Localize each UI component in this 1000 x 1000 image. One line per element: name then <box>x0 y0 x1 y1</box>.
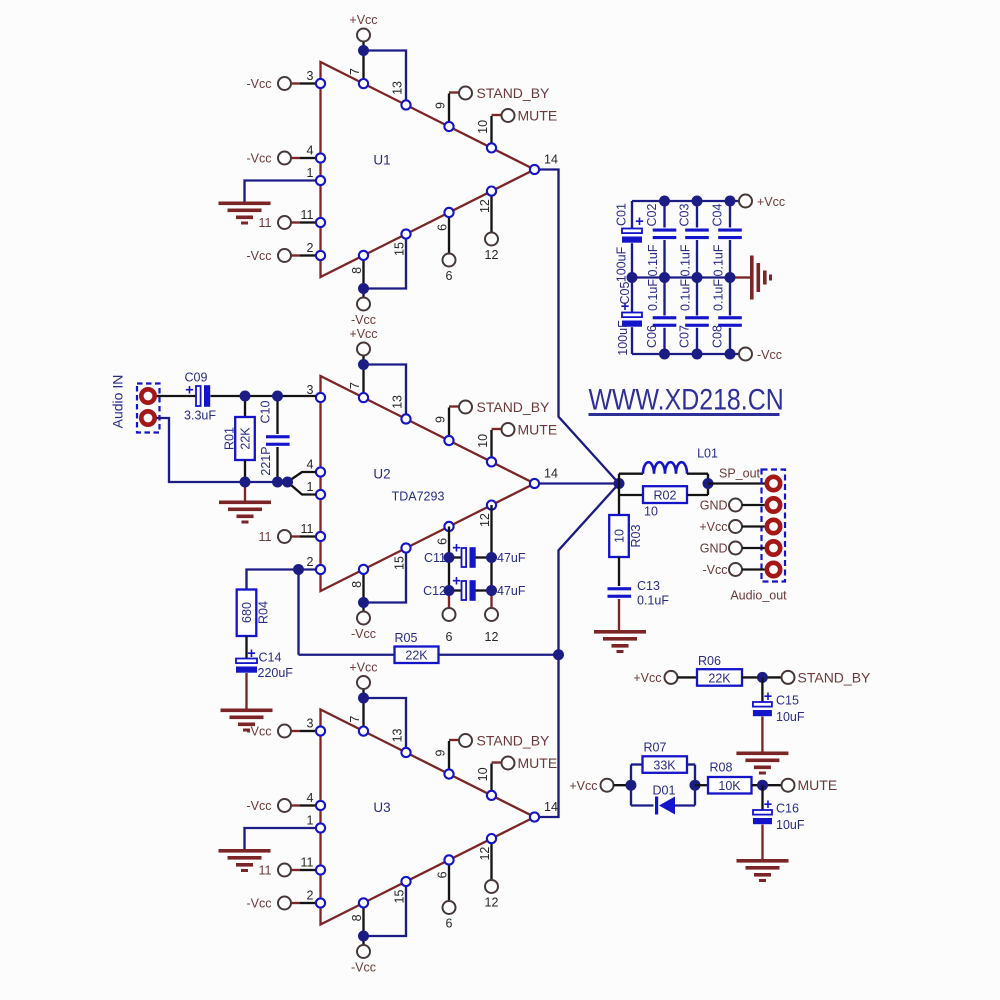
wire pin2 junction down <box>297 570 299 655</box>
pin 15 U2 <box>401 543 410 552</box>
pin 11 U1 <box>316 218 325 227</box>
wire fork to pin 1 <box>288 482 317 495</box>
wire C16 to ground <box>761 825 763 860</box>
wire R07/D01 left leg <box>630 765 632 806</box>
pin 15 U3 <box>401 877 410 886</box>
pin 12 U2 <box>487 501 496 510</box>
wire pin 2 stub b <box>300 254 316 256</box>
pin 13 U3 <box>401 748 410 757</box>
svg-text:0.1uF: 0.1uF <box>646 244 660 276</box>
svg-text:C12: C12 <box>423 584 446 598</box>
wire U1 output to node <box>535 170 620 484</box>
svg-text:U1: U1 <box>373 153 390 168</box>
junction R01 bottom <box>240 477 251 488</box>
capacitor C03 <box>685 229 709 240</box>
wire pin 4 stub b <box>300 804 316 806</box>
svg-text:L01: L01 <box>697 447 718 461</box>
svg-text:7: 7 <box>348 716 362 723</box>
wire C05 top <box>631 278 633 313</box>
pin 14 U2 <box>530 479 539 488</box>
wire to D01 <box>631 804 654 806</box>
terminal -Vcc pin4 U1 <box>278 152 291 165</box>
wire junction to -Vcc <box>362 289 364 298</box>
svg-text:22K: 22K <box>405 649 428 663</box>
wire D01 right <box>675 804 695 806</box>
wire pin 3 stub b <box>300 82 316 84</box>
junction -Vcc rail <box>659 349 670 360</box>
junction C10 bottom <box>272 477 283 488</box>
capacitor C04 <box>718 229 742 240</box>
terminal pin 6 U2 <box>443 608 456 621</box>
pin 1 U3 <box>316 823 325 832</box>
terminal pin 12 U3 <box>485 880 498 893</box>
terminal -Vcc pin4 U3 <box>278 799 291 812</box>
terminal STAND_BY U1 <box>459 87 472 100</box>
svg-text:0.1uF: 0.1uF <box>646 279 660 311</box>
wire pin 9 to STAND_BY <box>448 408 450 441</box>
wire GND to pad <box>742 547 765 549</box>
svg-text:+: + <box>247 646 255 662</box>
op-amp U2 (TDA7293) triangle <box>321 376 535 591</box>
svg-text:C07: C07 <box>677 325 691 348</box>
svg-text:C11: C11 <box>424 551 446 565</box>
svg-text:10: 10 <box>613 529 627 543</box>
capacitor C15 <box>753 702 772 716</box>
wire stub MUTE <box>492 428 502 430</box>
wire input top <box>157 395 197 397</box>
capacitor C02 <box>653 229 677 240</box>
wire U2 output to node <box>535 482 620 484</box>
wire pin 11 stub b <box>300 221 316 223</box>
svg-text:+: + <box>764 797 772 813</box>
svg-text:C02: C02 <box>645 203 659 226</box>
net +Vcc rail <box>632 200 739 202</box>
svg-text:10: 10 <box>644 505 658 519</box>
wire C14 to ground <box>245 673 247 709</box>
svg-text:3: 3 <box>307 69 314 83</box>
wire to R08 <box>695 784 708 786</box>
svg-text:6: 6 <box>446 630 453 644</box>
svg-text:R01: R01 <box>222 427 236 450</box>
svg-text:11: 11 <box>259 216 272 230</box>
wire bracket pin8-pin15 <box>364 234 407 289</box>
svg-text:+Vcc: +Vcc <box>349 661 377 675</box>
ground pin 1 <box>219 849 271 872</box>
svg-text:100uF: 100uF <box>616 320 630 356</box>
wire to input ground <box>244 482 246 501</box>
wire C10 down <box>276 447 278 482</box>
capacitor C09 <box>196 385 210 407</box>
connector Audio IN box <box>137 384 160 433</box>
wire C05 bottom <box>631 327 633 354</box>
wire -Vcc to pad <box>742 568 765 570</box>
svg-text:+: + <box>452 574 460 590</box>
wire pin 3 stub b <box>300 730 316 732</box>
terminal +Vcc bank <box>739 195 752 208</box>
pin 13 U1 <box>401 100 410 109</box>
node output <box>614 478 625 489</box>
wire pin 3 stub a <box>292 730 301 732</box>
junction C12 left <box>444 585 455 596</box>
pad GND <box>767 498 780 511</box>
svg-text:WWW.XD218.CN: WWW.XD218.CN <box>589 382 784 415</box>
wire C15 to ground <box>761 717 763 752</box>
wire pin 1 to ground <box>245 828 317 849</box>
terminal -Vcc pin3 U1 <box>278 77 291 90</box>
svg-text:+: + <box>764 689 772 705</box>
pin 12 U1 <box>487 187 496 196</box>
junction -Vcc <box>358 597 369 608</box>
wire pin 12 drop <box>490 839 492 880</box>
svg-text:10uF: 10uF <box>776 818 805 832</box>
op-amp U1 (TDA7293) triangle <box>321 62 535 277</box>
wire C01 bottom <box>631 243 633 277</box>
svg-text:+Vcc: +Vcc <box>699 520 727 534</box>
ground C16 <box>737 859 789 882</box>
resistor R03 <box>609 515 629 557</box>
svg-text:2: 2 <box>307 555 314 569</box>
svg-text:+Vcc: +Vcc <box>633 671 661 685</box>
svg-text:15: 15 <box>392 556 406 570</box>
junction -Vcc <box>358 931 369 942</box>
svg-text:7: 7 <box>348 382 362 389</box>
wire +Vcc to pad <box>742 525 765 527</box>
pad -Vcc <box>767 563 780 576</box>
junction GND rail <box>627 272 638 283</box>
wire stub STAND_BY <box>449 91 459 93</box>
wire R04 to C14 <box>245 636 247 659</box>
svg-text:6: 6 <box>435 871 449 878</box>
svg-text:+: + <box>452 541 460 557</box>
svg-text:Audio_out: Audio_out <box>730 589 787 603</box>
svg-text:0.1uF: 0.1uF <box>711 279 725 311</box>
wire C03 top <box>696 201 698 228</box>
pad Audio IN bottom <box>141 411 154 424</box>
terminal MUTE U1 <box>502 109 515 122</box>
label WWW.XD218.CN <box>589 382 784 415</box>
wire C11 right <box>476 556 492 558</box>
svg-text:U3: U3 <box>373 800 390 815</box>
svg-text:MUTE: MUTE <box>798 777 838 793</box>
diode D01 <box>655 797 675 815</box>
svg-text:22K: 22K <box>708 672 731 686</box>
wire +Vcc to junction <box>362 42 364 51</box>
capacitor C08 <box>718 316 742 327</box>
junction +Vcc <box>358 45 369 56</box>
svg-text:-Vcc: -Vcc <box>351 961 376 975</box>
wire C06 top <box>663 278 665 316</box>
junction C12 right <box>486 585 497 596</box>
wire R07/D01 right leg <box>694 765 696 806</box>
junction -Vcc rail <box>725 349 736 360</box>
net GND rail <box>632 276 735 278</box>
wire R01 to ground rail <box>244 460 246 482</box>
wire C08 top <box>729 278 731 316</box>
terminal -Vcc <box>729 563 742 576</box>
svg-text:D01: D01 <box>653 784 676 798</box>
wire pin 12 down <box>490 505 492 591</box>
ground C15 <box>736 752 788 775</box>
pin 2 U2 <box>316 565 325 574</box>
wire +Vcc to junction <box>362 356 364 365</box>
wire bracket pin8-pin15 <box>364 548 407 603</box>
svg-text:12: 12 <box>478 513 492 527</box>
wire to C10 <box>276 396 278 434</box>
svg-text:MUTE: MUTE <box>518 755 558 771</box>
wire pin 8 to junction <box>362 903 364 936</box>
pin 9 U1 <box>444 122 453 131</box>
resistor R01 <box>235 417 255 460</box>
wire C01 top <box>631 201 633 229</box>
junction R05 bus <box>553 649 564 660</box>
svg-text:9: 9 <box>433 416 447 423</box>
wire bracket pin8-pin15 <box>364 882 407 937</box>
capacitor C06 <box>653 316 677 327</box>
svg-text:-Vcc: -Vcc <box>247 152 272 166</box>
svg-text:C04: C04 <box>710 203 724 226</box>
wire to R01 <box>244 396 246 417</box>
ground cap bank <box>750 256 772 300</box>
svg-text:10uF: 10uF <box>776 710 805 724</box>
svg-text:11: 11 <box>259 530 272 544</box>
svg-text:1: 1 <box>307 480 314 494</box>
terminal MUTE U3 <box>502 757 515 770</box>
wire pin 12 drop <box>490 191 492 232</box>
inductor L01 <box>643 462 687 473</box>
terminal 11 U3 <box>278 864 291 877</box>
svg-text:GND: GND <box>700 499 728 513</box>
svg-text:8: 8 <box>350 914 364 921</box>
terminal +Vcc <box>729 520 742 533</box>
pin 3 U2 <box>316 393 325 402</box>
svg-text:11: 11 <box>301 208 314 222</box>
wire junction to pin 7 <box>362 698 364 731</box>
terminal STAND_BY net <box>782 671 795 684</box>
wire bracket pin7-pin13 <box>364 51 407 106</box>
svg-text:R06: R06 <box>698 654 721 668</box>
pin 6 U2 <box>444 522 453 531</box>
wire to R02 <box>619 494 643 496</box>
svg-text:1: 1 <box>307 814 314 828</box>
pin 1 U2 <box>316 490 325 499</box>
svg-text:3.3uF: 3.3uF <box>184 409 216 423</box>
wire +Vcc to R07 node <box>614 784 632 786</box>
svg-text:C13: C13 <box>637 579 660 593</box>
wire pin 8 to junction <box>362 569 364 602</box>
svg-text:C06: C06 <box>645 325 659 348</box>
wire R07 right <box>687 763 695 765</box>
svg-text:6: 6 <box>435 224 449 231</box>
pin 13 U2 <box>401 414 410 423</box>
wire rail to ground <box>735 276 750 278</box>
wire pin 11 stub a <box>292 869 301 871</box>
junction C11 left <box>444 552 455 563</box>
junction +Vcc rail <box>725 196 736 207</box>
junction R06/C15 <box>757 672 768 683</box>
pin 9 U3 <box>444 769 453 778</box>
wire pin 4 stub a <box>292 804 301 806</box>
svg-text:C01: C01 <box>614 203 628 226</box>
wire pin 6 drop <box>448 212 450 253</box>
svg-text:C08: C08 <box>710 325 724 348</box>
svg-text:12: 12 <box>485 896 499 910</box>
pin 4 U3 <box>316 801 325 810</box>
terminal MUTE U2 <box>502 423 515 436</box>
svg-text:47uF: 47uF <box>497 584 526 598</box>
wire pin 11 stub a <box>292 535 301 537</box>
wire +Vcc to R06 <box>678 676 698 678</box>
terminal 11 U2 <box>278 530 291 543</box>
pin 10 U2 <box>487 457 496 466</box>
svg-text:C05: C05 <box>618 281 632 304</box>
pin 7 U2 <box>359 393 368 402</box>
terminal -Vcc pin2 U1 <box>278 249 291 262</box>
wire pin2 to R04 <box>247 570 317 590</box>
wire L01 right <box>687 473 708 475</box>
pin 3 U3 <box>316 726 325 735</box>
junction +Vcc <box>358 359 369 370</box>
svg-text:3: 3 <box>307 717 314 731</box>
wire to R07 <box>631 763 643 765</box>
svg-text:47uF: 47uF <box>497 551 526 565</box>
wire C12 left <box>449 589 462 591</box>
terminal pin 12 U2 <box>485 608 498 621</box>
wire C06 bottom <box>663 328 665 354</box>
pin 7 U1 <box>359 79 368 88</box>
svg-text:R02: R02 <box>654 489 677 503</box>
svg-text:R07: R07 <box>644 741 667 755</box>
wire pin 4 stub a <box>292 157 301 159</box>
svg-text:9: 9 <box>433 102 447 109</box>
svg-text:14: 14 <box>544 800 558 814</box>
svg-text:6: 6 <box>446 917 453 931</box>
svg-text:10: 10 <box>476 120 490 134</box>
svg-text:10: 10 <box>476 434 490 448</box>
wire pin 10 to MUTE <box>490 116 492 148</box>
wire pin 3 stub a <box>292 82 301 84</box>
wire pin 2 stub a <box>292 254 301 256</box>
wire pin 9 to STAND_BY <box>448 741 450 774</box>
svg-text:220uF: 220uF <box>258 666 294 680</box>
wire pin 11 stub a <box>292 221 301 223</box>
svg-text:MUTE: MUTE <box>518 422 558 438</box>
pin 8 U2 <box>359 565 368 574</box>
svg-text:7: 7 <box>348 68 362 75</box>
terminal -Vcc bank <box>739 348 752 361</box>
pin 2 U1 <box>316 251 325 260</box>
svg-text:MUTE: MUTE <box>518 108 558 124</box>
connector Audio_out box <box>762 470 786 582</box>
capacitor C11 <box>462 547 476 568</box>
pin 6 U1 <box>444 208 453 217</box>
wire stub STAND_BY <box>449 405 459 407</box>
svg-text:C14: C14 <box>259 651 282 665</box>
junction output <box>703 478 714 489</box>
wire pin 4 stub b <box>300 157 316 159</box>
pin 9 U2 <box>444 436 453 445</box>
terminal 11 U1 <box>278 216 291 229</box>
pin 12 U3 <box>487 834 496 843</box>
terminal STAND_BY U3 <box>459 734 472 747</box>
terminal GND <box>729 542 742 555</box>
svg-text:11: 11 <box>301 522 314 536</box>
svg-text:100uF: 100uF <box>614 246 628 282</box>
svg-text:14: 14 <box>544 153 558 167</box>
resistor R08 <box>708 777 752 794</box>
svg-text:13: 13 <box>390 81 404 95</box>
svg-text:10: 10 <box>476 767 490 781</box>
svg-text:+Vcc: +Vcc <box>569 779 597 793</box>
wire pin 10 to MUTE <box>490 430 492 462</box>
svg-text:-Vcc: -Vcc <box>247 249 272 263</box>
junction R08/C16 <box>757 780 768 791</box>
terminal -Vcc pin2 U3 <box>278 897 291 910</box>
wire stub MUTE <box>492 761 502 763</box>
wire to L01 <box>619 473 643 475</box>
capacitor C05 <box>622 313 642 327</box>
wire C02 top <box>663 201 665 228</box>
svg-text:14: 14 <box>544 467 558 481</box>
svg-text:STAND_BY: STAND_BY <box>798 670 872 686</box>
wire L01/R02 join <box>707 474 709 495</box>
svg-text:0.1uF: 0.1uF <box>711 244 725 276</box>
pin 10 U3 <box>487 791 496 800</box>
pin 6 U3 <box>444 855 453 864</box>
wire junction to pin 7 <box>362 365 364 398</box>
junction +Vcc rail <box>659 196 670 207</box>
capacitor C07 <box>685 316 709 327</box>
svg-text:4: 4 <box>307 144 314 158</box>
svg-text:C03: C03 <box>677 203 691 226</box>
svg-text:8: 8 <box>350 267 364 274</box>
svg-text:12: 12 <box>478 199 492 213</box>
svg-text:STAND_BY: STAND_BY <box>477 733 551 749</box>
terminal +Vcc U2 <box>357 343 370 356</box>
svg-text:2: 2 <box>307 889 314 903</box>
wire pin 1 to ground <box>245 181 317 202</box>
svg-text:SP_out: SP_out <box>719 467 761 481</box>
wire to SP_out <box>708 482 765 484</box>
svg-text:221P: 221P <box>259 446 273 475</box>
wire junction to -Vcc <box>362 936 364 945</box>
wire pin 10 to MUTE <box>490 764 492 796</box>
pin 4 U2 <box>316 467 325 476</box>
pin 4 U1 <box>316 153 325 162</box>
ground pin 1 <box>219 202 271 225</box>
svg-text:-Vcc: -Vcc <box>247 799 272 813</box>
svg-text:4: 4 <box>307 458 314 472</box>
pin 10 U1 <box>487 143 496 152</box>
svg-text:2: 2 <box>307 241 314 255</box>
ground C14 <box>221 709 273 732</box>
terminal -Vcc U1 <box>357 298 370 311</box>
svg-text:-Vcc: -Vcc <box>351 627 376 641</box>
wire C13 to ground <box>618 599 620 630</box>
pad +Vcc <box>767 520 780 533</box>
svg-text:R04: R04 <box>256 601 270 624</box>
svg-text:R03: R03 <box>629 524 643 547</box>
pad GND <box>767 541 780 554</box>
wire C07 bottom <box>696 328 698 354</box>
junction R07 left <box>626 780 637 791</box>
svg-text:C09: C09 <box>185 371 208 385</box>
wire C12 right <box>476 589 492 591</box>
svg-text:11: 11 <box>259 864 272 878</box>
capacitor C16 <box>753 810 772 824</box>
pin 1 U1 <box>316 176 325 185</box>
terminal GND <box>729 499 742 512</box>
resistor R05 <box>395 647 439 664</box>
